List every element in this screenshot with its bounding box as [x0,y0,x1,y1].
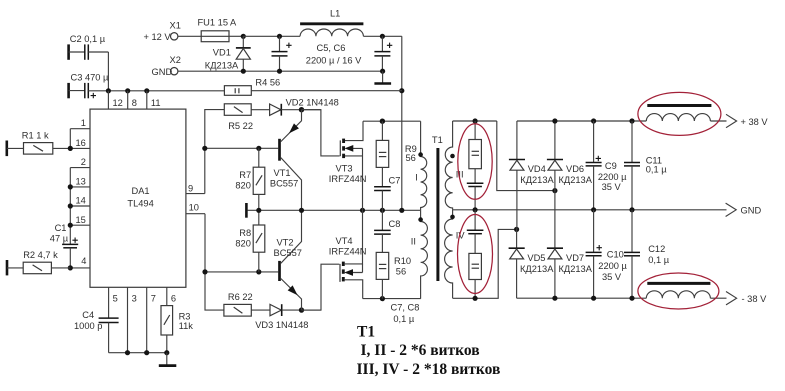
svg-text:IRFZ44N: IRFZ44N [329,174,367,184]
svg-text:11k: 11k [179,321,194,331]
inductor L1 [300,8,363,36]
pin 4 [70,256,90,268]
wire X1 to FU1 [178,35,201,37]
diode VD6 KD213A [547,121,593,248]
svg-text:III, IV - 2 *18 витков: III, IV - 2 *18 витков [357,361,501,378]
resistor R6 22 [224,292,253,316]
svg-text:L1: L1 [330,8,340,18]
node VT1/VT2 rail [299,208,304,213]
resistor R7 820 [235,148,264,210]
svg-text:16: 16 [76,138,86,148]
wire pin9 riser [205,110,225,194]
resistor R2 4,7k [7,250,70,276]
svg-text:VT1: VT1 [274,168,291,178]
red ellipse lower snubber [458,215,493,294]
node R7 top [256,146,261,151]
svg-text:820: 820 [235,239,251,249]
wire VCC rail [108,90,224,92]
capacitor C6 [374,36,392,71]
svg-text:C7, C8: C7, C8 [391,302,420,312]
node C7/C8 rail [380,208,385,213]
svg-text:35 V: 35 V [602,182,622,192]
node pin13 [68,184,73,189]
wire +38V rail [517,120,646,122]
transistor Q1: VT1 BC557 [270,110,302,211]
svg-text:VD4: VD4 [528,164,546,174]
connector X1 [144,21,181,43]
node C5 bottom [277,69,282,74]
svg-text:R6 22: R6 22 [228,292,253,302]
svg-text:VD5: VD5 [527,253,545,263]
transformer core [436,148,439,281]
ground [159,353,177,366]
snubber resistor (lower, circled) [469,234,482,299]
svg-text:C2 0,1 µ: C2 0,1 µ [70,34,106,44]
svg-text:КД213А: КД213А [520,264,554,274]
pin 12 [108,91,122,109]
node R10/C8 bottom [380,296,385,301]
svg-text:+ 38 V: + 38 V [741,117,769,127]
svg-text:2200 µ: 2200 µ [598,261,627,271]
svg-text:35 V: 35 V [602,272,622,282]
snubber resistor (upper, circled) [469,121,482,169]
node C9 top [591,118,596,123]
ground bar under C6 [374,71,391,83]
svg-text:VT2: VT2 [277,238,294,248]
node secondary snubber top [473,118,478,123]
transistor VT4 IRFZ44N [302,210,367,310]
pin 10 [186,203,205,214]
svg-text:0,1 µ: 0,1 µ [648,255,670,265]
svg-text:T1: T1 [432,135,443,145]
diode VD3 1N4148 [255,304,308,330]
wire ground bus under IC [109,352,167,354]
svg-text:12: 12 [113,98,123,108]
capacitor C5 [272,36,292,71]
wire pin1-pin16 [69,129,71,149]
svg-text:VD7: VD7 [566,253,584,263]
node C11 top [629,118,634,123]
wire VD2 to node [281,109,321,111]
node pin16/R1 [68,146,73,151]
node VD6 cathode rail [552,118,557,123]
wire R5 to VD2 [251,109,269,111]
svg-text:8: 8 [132,98,137,108]
svg-text:R3: R3 [179,311,191,321]
diode VD2 1N4148 [270,98,339,116]
output inductor -38V (circled) [646,283,726,298]
node pin10 base tap [202,269,207,274]
wire winding III top [453,120,497,122]
wire VT3 drain to winding I top [363,120,421,122]
svg-text:VD3 1N4148: VD3 1N4148 [255,320,308,330]
node FU1/VD1/L1 [241,34,246,39]
svg-text:КД213А: КД213А [559,264,593,274]
winding III secondary [445,121,463,210]
wire VT4 drain to winding II bottom [363,298,421,300]
node pin4/C1/R2 [68,265,73,270]
wire L1 to corner [363,35,401,37]
red ellipse upper snubber [458,124,492,200]
red ellipse output inductor top [638,92,721,135]
svg-text:11: 11 [151,98,161,108]
diode VD5 KD213A [509,229,555,298]
svg-text:C8: C8 [389,219,401,229]
capacitor C1 47u [50,223,78,268]
pin 15 [70,215,90,225]
node R9 top [380,119,385,124]
svg-text:0,1 µ: 0,1 µ [646,164,668,174]
wire FU1 to node [229,35,243,37]
svg-text:TL494: TL494 [127,199,153,209]
node pin8 rail [125,88,130,93]
pin 7 [147,287,156,352]
svg-text:VT3: VT3 [336,164,353,174]
svg-text:1000 p: 1000 p [74,321,102,331]
pin 13 [70,177,90,187]
resistor R5 22 [224,104,253,131]
node VD6 anode [552,188,557,193]
svg-text:R8: R8 [239,228,251,238]
node C6 top [380,34,385,39]
node pin15 [68,223,73,228]
svg-text:4: 4 [81,256,86,266]
svg-text:R5 22: R5 22 [228,121,253,131]
node pin3 bus [125,350,130,355]
svg-text:C7: C7 [389,176,401,186]
resistor R10 56 [376,252,411,298]
capacitor C10 2200u 35V [586,210,628,298]
pin 16 [70,138,90,148]
node +12 rail center tap [399,208,404,213]
capacitor C3 [69,73,109,99]
svg-text:КД213А: КД213А [559,175,593,185]
svg-text:VD6: VD6 [566,164,584,174]
svg-text:DA1: DA1 [132,186,150,196]
svg-text:T1: T1 [357,324,375,341]
svg-text:C1: C1 [55,223,67,233]
pin 14 [70,196,90,206]
IC DA1 TL494 [90,109,186,287]
svg-text:КД213А: КД213А [205,60,239,70]
svg-text:II: II [411,236,416,246]
svg-text:7: 7 [151,294,156,304]
note T1 winding data [357,324,501,378]
resistor R4 56 [224,77,280,95]
svg-text:56: 56 [406,153,416,163]
winding IV secondary [445,210,466,298]
svg-text:+ 12 V: + 12 V [144,32,172,42]
arrow -38V output [726,292,767,305]
node pin7 bus [144,350,149,355]
node VD7 cathode rail [552,296,557,301]
pin 6 with R3 [161,287,193,352]
diode VD7 KD213A [547,248,593,299]
svg-text:BC557: BC557 [270,178,298,188]
transistor Q2: VT2 BC557 [274,210,302,310]
pin 1 [70,118,90,129]
svg-text:C3 470 µ: C3 470 µ [71,73,110,83]
wire winding III to diode anodes [497,121,555,191]
transistor VT3 IRFZ44N [302,110,367,211]
pin 8 [128,91,137,109]
node C6 bottom / GND [380,69,385,74]
pin 2 [70,157,90,167]
wire X2 GND line [178,70,383,72]
wire -38V rail [517,297,647,299]
svg-text:C10: C10 [607,249,624,259]
capacitor C9 2200u 35V [586,121,628,210]
arrow +38V output [726,114,768,127]
wire node to C5 [243,35,300,37]
svg-text:BC557: BC557 [274,248,302,258]
node VD4/VD5 anodes [514,227,519,232]
svg-text:X2: X2 [170,55,181,65]
svg-text:C12: C12 [648,244,665,254]
svg-text:R2 4,7 k: R2 4,7 k [23,250,58,260]
svg-text:C4: C4 [82,310,94,320]
node C10 bottom [591,296,596,301]
svg-text:IRFZ44N: IRFZ44N [329,246,367,256]
svg-text:6: 6 [171,294,176,304]
wire VT1 base line [205,147,278,149]
node pin14 [68,203,73,208]
pin 5 with C4 [74,287,119,352]
svg-text:15: 15 [76,215,86,225]
resistor R1 1k [7,130,71,156]
wire +12V rail vertical [401,36,403,210]
node pin6 bus [164,350,169,355]
svg-text:5: 5 [113,294,118,304]
diode VD1 KD213A [205,36,251,71]
svg-text:GND: GND [741,205,762,215]
node C9 mid rail [591,207,596,212]
wire VD3 to node [282,309,321,311]
capacitor C2 [69,34,109,91]
svg-text:R7: R7 [239,170,251,180]
svg-text:X1: X1 [170,21,181,31]
snubber capacitor (lower, circled) [467,210,484,234]
resistor R8 820 [235,210,264,272]
svg-text:3: 3 [132,294,137,304]
node pin11 rail [144,88,149,93]
svg-text:1: 1 [81,118,86,128]
svg-text:VD2 1N4148: VD2 1N4148 [286,98,339,108]
svg-text:14: 14 [76,196,86,206]
node VD2/VT1/gate [299,107,304,112]
svg-text:10: 10 [189,203,199,213]
winding I primary [415,121,426,210]
svg-text:I, II - 2 *6 витков: I, II - 2 *6 витков [361,342,480,359]
output inductor +38V (circled) [646,106,726,122]
svg-text:- 38 V: - 38 V [742,294,768,304]
node C12 bottom [629,296,634,301]
wire R4 to +12 rail [251,90,401,92]
snubber capacitor (upper, circled) [467,169,484,210]
svg-text:13: 13 [76,177,86,187]
svg-text:VT4: VT4 [336,236,353,246]
pin 3 [128,287,137,352]
pin 11 [147,91,161,109]
resistor R9 56 [376,121,417,167]
svg-text:56: 56 [396,267,406,277]
winding II primary [411,210,428,298]
svg-text:КД213А: КД213А [520,175,554,185]
node VD3/VT2/gate [299,307,304,312]
red ellipse output inductor bottom [638,273,719,309]
capacitor C8 [374,210,400,252]
node VD1 anode / GND line [241,69,246,74]
svg-text:GND: GND [152,67,173,77]
node pin12 rail [106,88,111,93]
node C11 mid rail [629,207,634,212]
connector X2 [152,55,181,77]
diode VD4 KD213A [509,121,555,229]
svg-text:VD1: VD1 [213,48,231,58]
arrow GND output [726,203,762,216]
svg-text:C5, C6: C5, C6 [317,43,346,53]
svg-text:0,1 µ: 0,1 µ [393,314,415,324]
node +12 rail / VCC rail [399,88,404,93]
svg-text:47 µ: 47 µ [50,233,69,243]
node snubber mid rail [473,207,478,212]
node VT3/VT4 source rail [360,208,365,213]
svg-text:9: 9 [188,183,193,193]
svg-text:2200 µ: 2200 µ [598,172,627,182]
svg-text:R1 1 k: R1 1 k [22,130,49,140]
wire VT2 base line [205,271,278,273]
svg-text:R4 56: R4 56 [255,77,280,87]
node pin9 base tap [202,146,207,151]
wire pin10 riser [205,214,224,310]
wire winding IV bottom [453,229,517,298]
svg-text:C9: C9 [605,161,617,171]
svg-text:R10: R10 [394,256,411,266]
wire GND rail [248,209,421,211]
wire pin2-13-14-15 chain [69,168,71,245]
capacitor C7 [374,167,400,210]
svg-text:I: I [415,173,418,183]
svg-text:FU1 15 A: FU1 15 A [198,17,238,27]
node C5 top [277,34,282,39]
capacitor C11 0,1u [624,121,667,210]
pin 9 [186,183,205,193]
wire R6 to VD3 [251,309,270,311]
node snubber bottom [473,296,478,301]
svg-text:2200 µ / 16 V: 2200 µ / 16 V [306,55,362,65]
svg-text:820: 820 [235,181,251,191]
node R7/R8 rail [256,208,261,213]
fuse FU1 15 A [198,17,238,41]
node R8 bottom [256,269,261,274]
capacitor C12 0,1u [624,210,670,298]
ground bar left of GND rail [245,203,248,218]
svg-text:2: 2 [81,157,86,167]
wire GND mid rail [453,209,727,211]
